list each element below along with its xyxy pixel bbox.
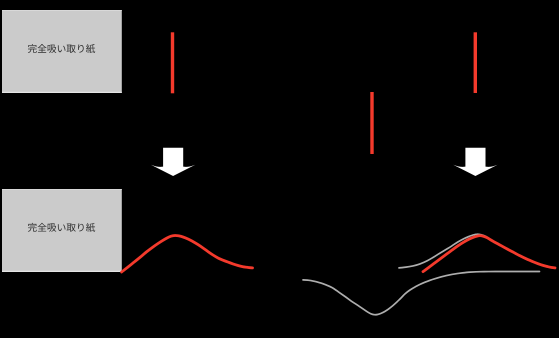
box 2 bottom highlight edge	[2, 270, 122, 272]
white down arrow 1	[151, 148, 195, 176]
red impulse line 1 (top left)	[171, 32, 174, 93]
box 2 top highlight edge	[2, 189, 122, 191]
box 1 top highlight edge	[2, 10, 122, 12]
red shifted broadened line (bottom right)	[423, 236, 555, 272]
red broadened line (bottom left)	[122, 235, 253, 272]
red impulse line 3 (top right)	[474, 32, 477, 93]
red impulse line 2 (middle)	[370, 92, 373, 154]
blotting-paper box 2 (bottom left)	[2, 189, 122, 272]
label: 完全吸い取り紙 (box 1)	[28, 44, 95, 53]
box 1 bottom highlight edge	[2, 91, 122, 93]
gray original line-shape bump (right)	[399, 234, 551, 268]
blotting-paper box 1 (top left)	[2, 10, 122, 93]
white down arrow 2	[453, 148, 497, 176]
gray dispersion S-curve (bottom right)	[303, 272, 540, 315]
label: 完全吸い取り紙 (box 2)	[28, 223, 95, 232]
